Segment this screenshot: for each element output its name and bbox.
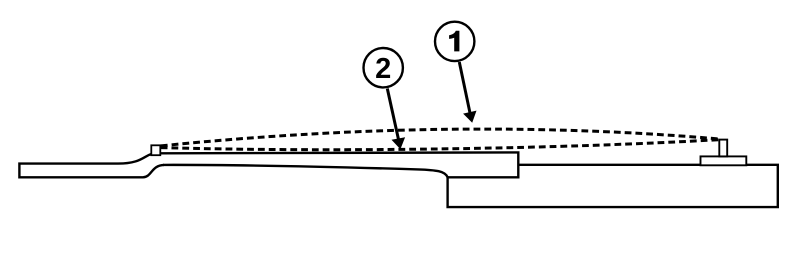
nut	[151, 145, 160, 155]
headstock outline	[19, 154, 164, 177]
bridge base	[701, 156, 747, 165]
callout circle 2	[364, 48, 403, 87]
svg-text:2: 2	[375, 53, 391, 85]
guitar body	[448, 165, 778, 207]
heel bottom, fretboard end edge, fretboard top surface	[160, 152, 518, 177]
label 1	[449, 31, 459, 52]
vibrating string arc (upper dashed line)	[161, 129, 722, 146]
arrow 1 (from callout 1 to upper dashed line)	[459, 62, 476, 123]
callout circle 1	[435, 22, 474, 61]
bridge saddle post	[719, 140, 727, 157]
arrow 2 (from callout 2 to lower dashed line)	[387, 89, 405, 150]
neck back line and heel curve	[163, 165, 448, 177]
string at rest (lower dashed line)	[161, 140, 722, 150]
